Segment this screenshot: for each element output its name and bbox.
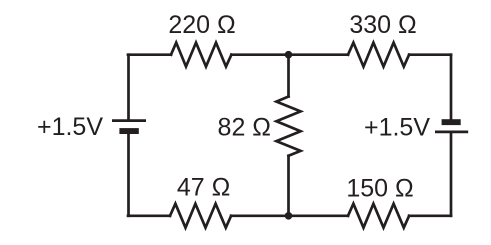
resistor R5 150Ω xyxy=(348,204,409,228)
wire right-upper (top corner down to battery) xyxy=(450,55,453,120)
svg-text:220 Ω: 220 Ω xyxy=(168,11,235,39)
resistor R4 47Ω xyxy=(170,204,231,228)
wire top-middle segment xyxy=(231,53,348,56)
wire left-upper (top corner down to battery) xyxy=(127,55,130,120)
svg-text:47 Ω: 47 Ω xyxy=(177,174,230,202)
wire right-lower (battery down to bottom corner) xyxy=(450,132,453,216)
battery B1 +1.5V left: long positive plate xyxy=(112,119,146,122)
resistor R1 220Ω xyxy=(171,43,231,67)
battery B2 +1.5V right: long positive plate xyxy=(435,130,468,133)
node B (bottom junction dot) xyxy=(285,212,293,220)
wire left-lower (battery down to bottom corner) xyxy=(127,131,130,216)
battery B1 +1.5V left: short thick negative plate xyxy=(119,128,138,134)
wire middle-lower (R3 down to bottom node) xyxy=(287,156,290,216)
wire bottom-right segment xyxy=(409,214,451,217)
svg-text:330 Ω: 330 Ω xyxy=(349,11,416,39)
svg-text:82 Ω: 82 Ω xyxy=(218,114,271,142)
wire middle-upper (top node down to R3) xyxy=(287,55,290,97)
wire top-right segment xyxy=(409,53,451,56)
battery B2 +1.5V right: short thick negative plate xyxy=(442,119,461,125)
node A (top junction dot) xyxy=(285,51,293,59)
svg-text:150 Ω: 150 Ω xyxy=(346,175,413,203)
resistor R3 82Ω (vertical) xyxy=(276,97,300,156)
wire bottom-middle segment xyxy=(231,214,348,217)
svg-text:+1.5V: +1.5V xyxy=(364,114,430,142)
wire top-left segment xyxy=(128,53,171,56)
resistor R2 330Ω xyxy=(348,43,409,67)
svg-text:+1.5V: +1.5V xyxy=(37,113,103,141)
wire bottom-left segment xyxy=(128,214,170,217)
